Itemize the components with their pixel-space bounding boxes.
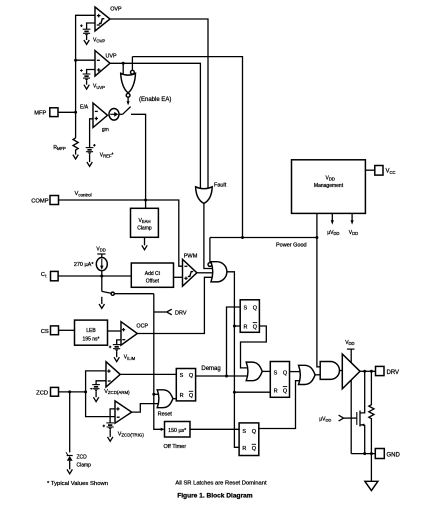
wire OR2 output [315, 374, 320, 376]
pin COMP [31, 196, 58, 205]
ground VUVP [84, 85, 89, 89]
gate OR fault [196, 182, 227, 203]
wire Ct [58, 275, 131, 277]
svg-text:Q: Q [252, 429, 257, 435]
connector DRV tap [154, 309, 187, 316]
latch demag U-A [176, 369, 195, 401]
wire ARM output [120, 373, 176, 375]
gate OR2 [299, 365, 316, 384]
wire reset or top stub [154, 393, 159, 395]
wire latchC R stub [234, 391, 270, 393]
node junction Vcontrol-clamp [144, 199, 147, 202]
ground Ct switch [99, 304, 104, 308]
svg-text:150 µs*: 150 µs* [168, 428, 186, 434]
node junction pwmor-latchC-R [233, 391, 236, 394]
supply VDD 270uA [96, 247, 105, 258]
wire power good [210, 213, 320, 366]
svg-text:VDD: VDD [326, 175, 335, 181]
comparator VZCD-TRIG [115, 401, 132, 423]
buffer driver [342, 354, 360, 389]
svg-text:Figure 1. Block Diagram: Figure 1. Block Diagram [177, 492, 253, 499]
svg-text:UVP: UVP [106, 54, 117, 60]
svg-text:VDD: VDD [345, 340, 354, 346]
wire PWM output [197, 272, 212, 274]
arrow clamp down [142, 245, 147, 249]
switch enable EA [119, 107, 145, 200]
svg-text:S: S [244, 306, 248, 312]
svg-text:µVDD: µVDD [319, 416, 331, 422]
svg-text:OCP: OCP [136, 324, 148, 330]
block VDD management [292, 160, 366, 214]
wire latchB R stub [234, 325, 240, 327]
wire OVP output [110, 19, 208, 189]
svg-text:E/A: E/A [80, 104, 89, 110]
wire AND output [339, 370, 342, 372]
node junction reset-or-top [152, 393, 155, 396]
svg-text:Q: Q [283, 388, 288, 394]
reference VUVP [80, 69, 105, 90]
wire latchC Q output [290, 371, 301, 373]
svg-text:VCC: VCC [386, 169, 396, 175]
resistor RMFP [53, 138, 78, 155]
svg-text:Q: Q [189, 373, 194, 379]
gate OR pwm-drive [208, 262, 227, 282]
ground ZCD clamp [67, 469, 72, 473]
svg-text:270 µA*: 270 µA* [74, 262, 95, 268]
svg-text:Fault: Fault [214, 182, 227, 188]
svg-text:R: R [180, 393, 184, 399]
pin ZCD [36, 387, 85, 396]
pin Ct [41, 271, 58, 280]
svg-text:Add Ct: Add Ct [145, 271, 161, 277]
svg-text:S: S [242, 429, 246, 435]
wire fault output [204, 203, 212, 269]
svg-text:Q: Q [283, 370, 288, 376]
svg-text:VZCD(ARM): VZCD(ARM) [104, 389, 130, 395]
wire OCP output [137, 277, 212, 333]
node junction drv-mosfet [363, 370, 366, 373]
svg-text:Demag: Demag [201, 366, 220, 372]
comparator VZCD-ARM [106, 362, 120, 387]
svg-text:R: R [274, 388, 278, 394]
svg-text:ZCD: ZCD [77, 454, 88, 460]
wire demag to latchB S [227, 307, 241, 376]
wire pwm-or output [227, 272, 239, 448]
node junction demag-latchB [225, 375, 228, 378]
ground VOVP [84, 40, 89, 44]
resistor DRV pulldown [369, 371, 374, 453]
pin GND [375, 449, 400, 459]
svg-text:Clamp: Clamp [77, 462, 92, 468]
wire ZCD to ARM [86, 371, 106, 392]
svg-text:VDD: VDD [96, 247, 105, 253]
gate OR reset [157, 390, 173, 418]
wire left input bus [76, 15, 95, 138]
wire enable EA [127, 97, 172, 105]
wire NOR right input from PowerGood [132, 57, 242, 238]
latch U-B [240, 300, 259, 333]
wire driver output [360, 370, 376, 372]
gate AND drive [320, 362, 339, 380]
wire TRIG output [132, 404, 159, 413]
gate OR1 [246, 362, 262, 381]
wire UVP output [110, 63, 200, 189]
wire DRV control line [154, 294, 161, 430]
wire latchD Q to OR2 [259, 381, 300, 429]
ground symbol main [365, 454, 378, 491]
pin VCC [365, 166, 395, 176]
svg-text:Clamp: Clamp [137, 226, 152, 232]
pin DRV [376, 366, 400, 376]
block add Ct offset [131, 263, 182, 287]
transistor pulldown MOSFET [344, 371, 365, 453]
ground VZCD-TRIG [108, 437, 113, 441]
ground VILIM [114, 357, 119, 361]
ground VZCD-ARM [93, 397, 98, 401]
svg-text:DRV: DRV [175, 310, 187, 316]
node junction bus-MFP [74, 111, 77, 114]
arrow timer input [161, 428, 165, 431]
wire ZCD to TRIG [86, 392, 115, 417]
svg-text:COMP: COMP [31, 199, 49, 205]
wire reset output [173, 398, 176, 400]
diode ZCD clamp [66, 392, 91, 470]
pin CS [41, 326, 75, 335]
svg-text:Power Good: Power Good [276, 243, 307, 249]
comparator UVP [95, 51, 117, 77]
svg-text:195 ns*: 195 ns* [83, 337, 100, 343]
svg-text:ZCD: ZCD [36, 391, 48, 397]
svg-text:Q: Q [253, 306, 258, 312]
svg-text:All SR Latches are Reset Domin: All SR Latches are Reset Dominant [175, 480, 267, 486]
ground RMFP [73, 155, 78, 159]
supply VDD driver [345, 340, 354, 454]
reference VILIM [109, 340, 136, 361]
svg-text:Offset: Offset [146, 279, 160, 285]
wire demag into OR1 handled by demag wire [262, 370, 270, 372]
svg-text:OVP: OVP [110, 7, 122, 13]
node junction gnd-mosfet [363, 452, 366, 455]
svg-text:(Enable EA): (Enable EA) [139, 97, 171, 103]
node junction gnd-resistor [370, 452, 373, 455]
node junction ZCD-clamp [68, 390, 71, 393]
ground VREF [87, 162, 92, 166]
reference VOVP [80, 23, 105, 44]
wire VDD output arrow [349, 213, 358, 236]
svg-text:VILIM: VILIM [124, 355, 136, 361]
svg-text:Reset: Reset [158, 411, 173, 417]
reference VREF [86, 119, 114, 162]
gate NOR enable-EA [121, 70, 136, 97]
node junction Ct [100, 275, 103, 278]
svg-text:Q: Q [252, 446, 257, 452]
node junction UVP-NOR [122, 62, 125, 65]
wire demag [196, 366, 248, 376]
reference VZCD-ARM [89, 381, 130, 397]
svg-text:R: R [242, 446, 246, 452]
wire NOR left input [122, 63, 124, 73]
switch Ct discharge [102, 276, 154, 304]
svg-text:* Typical Values Shown: * Typical Values Shown [47, 481, 108, 487]
node junction bus-UVP [74, 59, 77, 62]
op-amp EA [80, 103, 109, 133]
svg-text:VREF*: VREF* [100, 153, 114, 159]
reference VZCD-TRIG [103, 409, 145, 438]
current source gm output [109, 109, 119, 121]
wire Vcontrol [59, 191, 183, 266]
wire uVDD output arrow [327, 213, 339, 236]
svg-text:VUVP: VUVP [93, 84, 105, 90]
svg-text:µVDD: µVDD [327, 230, 339, 236]
svg-text:Management: Management [314, 183, 344, 189]
svg-text:GND: GND [387, 453, 401, 459]
svg-text:gm: gm [102, 127, 109, 133]
latch U-C [270, 362, 289, 398]
svg-text:LEB: LEB [86, 328, 96, 334]
svg-text:Vcontrol: Vcontrol [75, 191, 92, 197]
block VEAH clamp [131, 208, 159, 245]
comparator OVP [95, 7, 122, 31]
wire powergood to PWM-OR bubble [209, 238, 211, 263]
svg-text:Off Timer: Off Timer [164, 444, 187, 450]
svg-text:RMFP: RMFP [53, 145, 66, 151]
wire clamp drop [145, 200, 147, 208]
block off timer [164, 422, 240, 451]
svg-text:VZCD(TRIG): VZCD(TRIG) [118, 431, 145, 437]
current source 270uA [74, 258, 107, 276]
node junction powergood-NOR [241, 236, 244, 239]
node junction powergood-drop [315, 236, 318, 239]
latch U-D [239, 423, 259, 456]
svg-text:CS: CS [41, 329, 49, 335]
svg-text:S: S [274, 370, 278, 376]
comparator OCP [121, 322, 148, 346]
svg-text:Q: Q [189, 393, 194, 399]
svg-text:VEAH: VEAH [139, 218, 151, 224]
svg-text:VOVP: VOVP [93, 38, 105, 44]
block LEB [75, 320, 122, 345]
svg-text:S: S [180, 373, 184, 379]
connector uVDD gate [319, 415, 343, 422]
node junction pwmor-latchB-R [233, 325, 236, 328]
svg-text:R: R [244, 324, 248, 330]
svg-text:MFP: MFP [34, 110, 46, 116]
pin MFP [34, 108, 75, 117]
svg-text:PWM: PWM [184, 253, 198, 259]
svg-text:DRV: DRV [387, 370, 400, 376]
svg-text:VDD: VDD [349, 230, 358, 236]
wire latchB Qbar staircase [241, 326, 267, 368]
comparator PWM [183, 253, 198, 286]
node junction ZCD-split [84, 390, 87, 393]
wire GND rail [351, 453, 375, 455]
svg-text:Q: Q [253, 324, 258, 330]
node junction drv-resistor [370, 370, 373, 373]
